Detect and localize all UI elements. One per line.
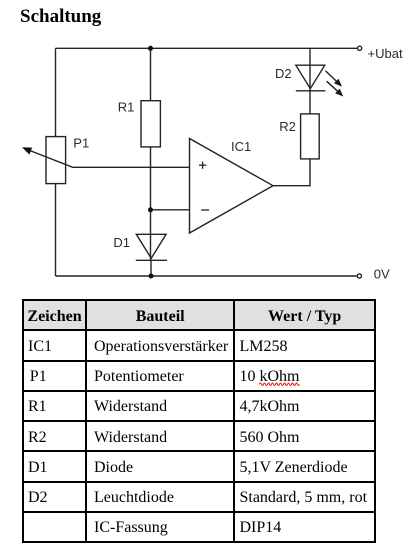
label +Ubat bbox=[368, 46, 403, 61]
wire left rail upper bbox=[55, 48, 57, 137]
node junction R1 top bbox=[148, 46, 153, 51]
wire R2 to op-amp output bbox=[273, 159, 310, 186]
resistor R2 body bbox=[301, 114, 320, 159]
wire R1 top from rail bbox=[150, 48, 152, 100]
svg-text:P1: P1 bbox=[73, 136, 89, 151]
svg-text:D1: D1 bbox=[113, 235, 130, 250]
label 0V bbox=[374, 266, 390, 281]
op-amp + input symbol bbox=[199, 162, 206, 169]
svg-text:IC1: IC1 bbox=[231, 139, 251, 154]
svg-text:R1: R1 bbox=[118, 100, 135, 115]
parts table bbox=[22, 299, 376, 543]
diode D1 triangle bbox=[136, 234, 166, 258]
resistor R1 body bbox=[141, 101, 160, 147]
wire P1 wiper to op-amp + input bbox=[28, 150, 190, 168]
label P1 bbox=[73, 136, 89, 151]
wire node to op-amp - input bbox=[151, 209, 190, 211]
op-amp IC1 triangle bbox=[190, 139, 274, 234]
svg-text:0V: 0V bbox=[374, 266, 390, 281]
spellcheck squiggle under kOhm bbox=[260, 383, 300, 386]
wire bottom rail bbox=[56, 275, 357, 277]
title Schaltung bbox=[20, 6, 101, 28]
terminal +Ubat circle bbox=[358, 46, 362, 50]
wire D2 branch from top rail bbox=[309, 48, 311, 91]
op-amp - input symbol bbox=[201, 209, 209, 211]
potentiometer P1 body bbox=[46, 137, 66, 184]
label D1 bbox=[113, 235, 130, 250]
LED D2 triangle bbox=[296, 65, 325, 88]
LED D2 emission arrow 1 head bbox=[334, 79, 342, 87]
svg-text:D2: D2 bbox=[275, 66, 292, 81]
terminal 0V circle bbox=[357, 274, 361, 278]
wire R1 bottom to D1 bbox=[150, 147, 152, 260]
label R2 bbox=[279, 119, 296, 134]
LED D2 cathode bar bbox=[296, 90, 326, 92]
label IC1 bbox=[231, 139, 251, 154]
wire D2 to R2 bbox=[309, 91, 311, 114]
node junction inverting input bbox=[148, 207, 153, 212]
wire top rail bbox=[56, 47, 358, 49]
node junction D1 bottom bbox=[149, 274, 154, 279]
svg-text:R2: R2 bbox=[279, 119, 296, 134]
svg-text:+Ubat: +Ubat bbox=[368, 46, 403, 61]
diode D1 cathode bar bbox=[136, 259, 167, 261]
wire left rail lower bbox=[55, 184, 57, 277]
label R1 bbox=[118, 100, 135, 115]
LED D2 emission arrow 2 shaft bbox=[327, 81, 340, 93]
LED D2 emission arrow 2 head bbox=[335, 89, 343, 97]
wire D1 to bottom rail bbox=[150, 260, 152, 276]
P1 arrow head bbox=[22, 147, 32, 154]
label D2 bbox=[275, 66, 292, 81]
LED D2 emission arrow 1 shaft bbox=[325, 71, 338, 83]
